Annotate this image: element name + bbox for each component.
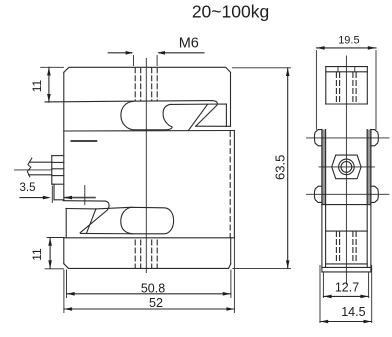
- svg-text:11: 11: [30, 79, 44, 92]
- svg-text:63.5: 63.5: [273, 155, 288, 180]
- svg-text:20~100kg: 20~100kg: [192, 2, 269, 22]
- svg-text:52: 52: [149, 296, 163, 310]
- svg-text:19.5: 19.5: [338, 35, 359, 47]
- svg-text:11: 11: [30, 248, 44, 261]
- svg-text:M6: M6: [179, 36, 199, 52]
- svg-text:3.5: 3.5: [20, 182, 36, 194]
- svg-text:50.8: 50.8: [141, 282, 165, 296]
- svg-text:14.5: 14.5: [341, 305, 365, 319]
- svg-text:12.7: 12.7: [335, 280, 359, 294]
